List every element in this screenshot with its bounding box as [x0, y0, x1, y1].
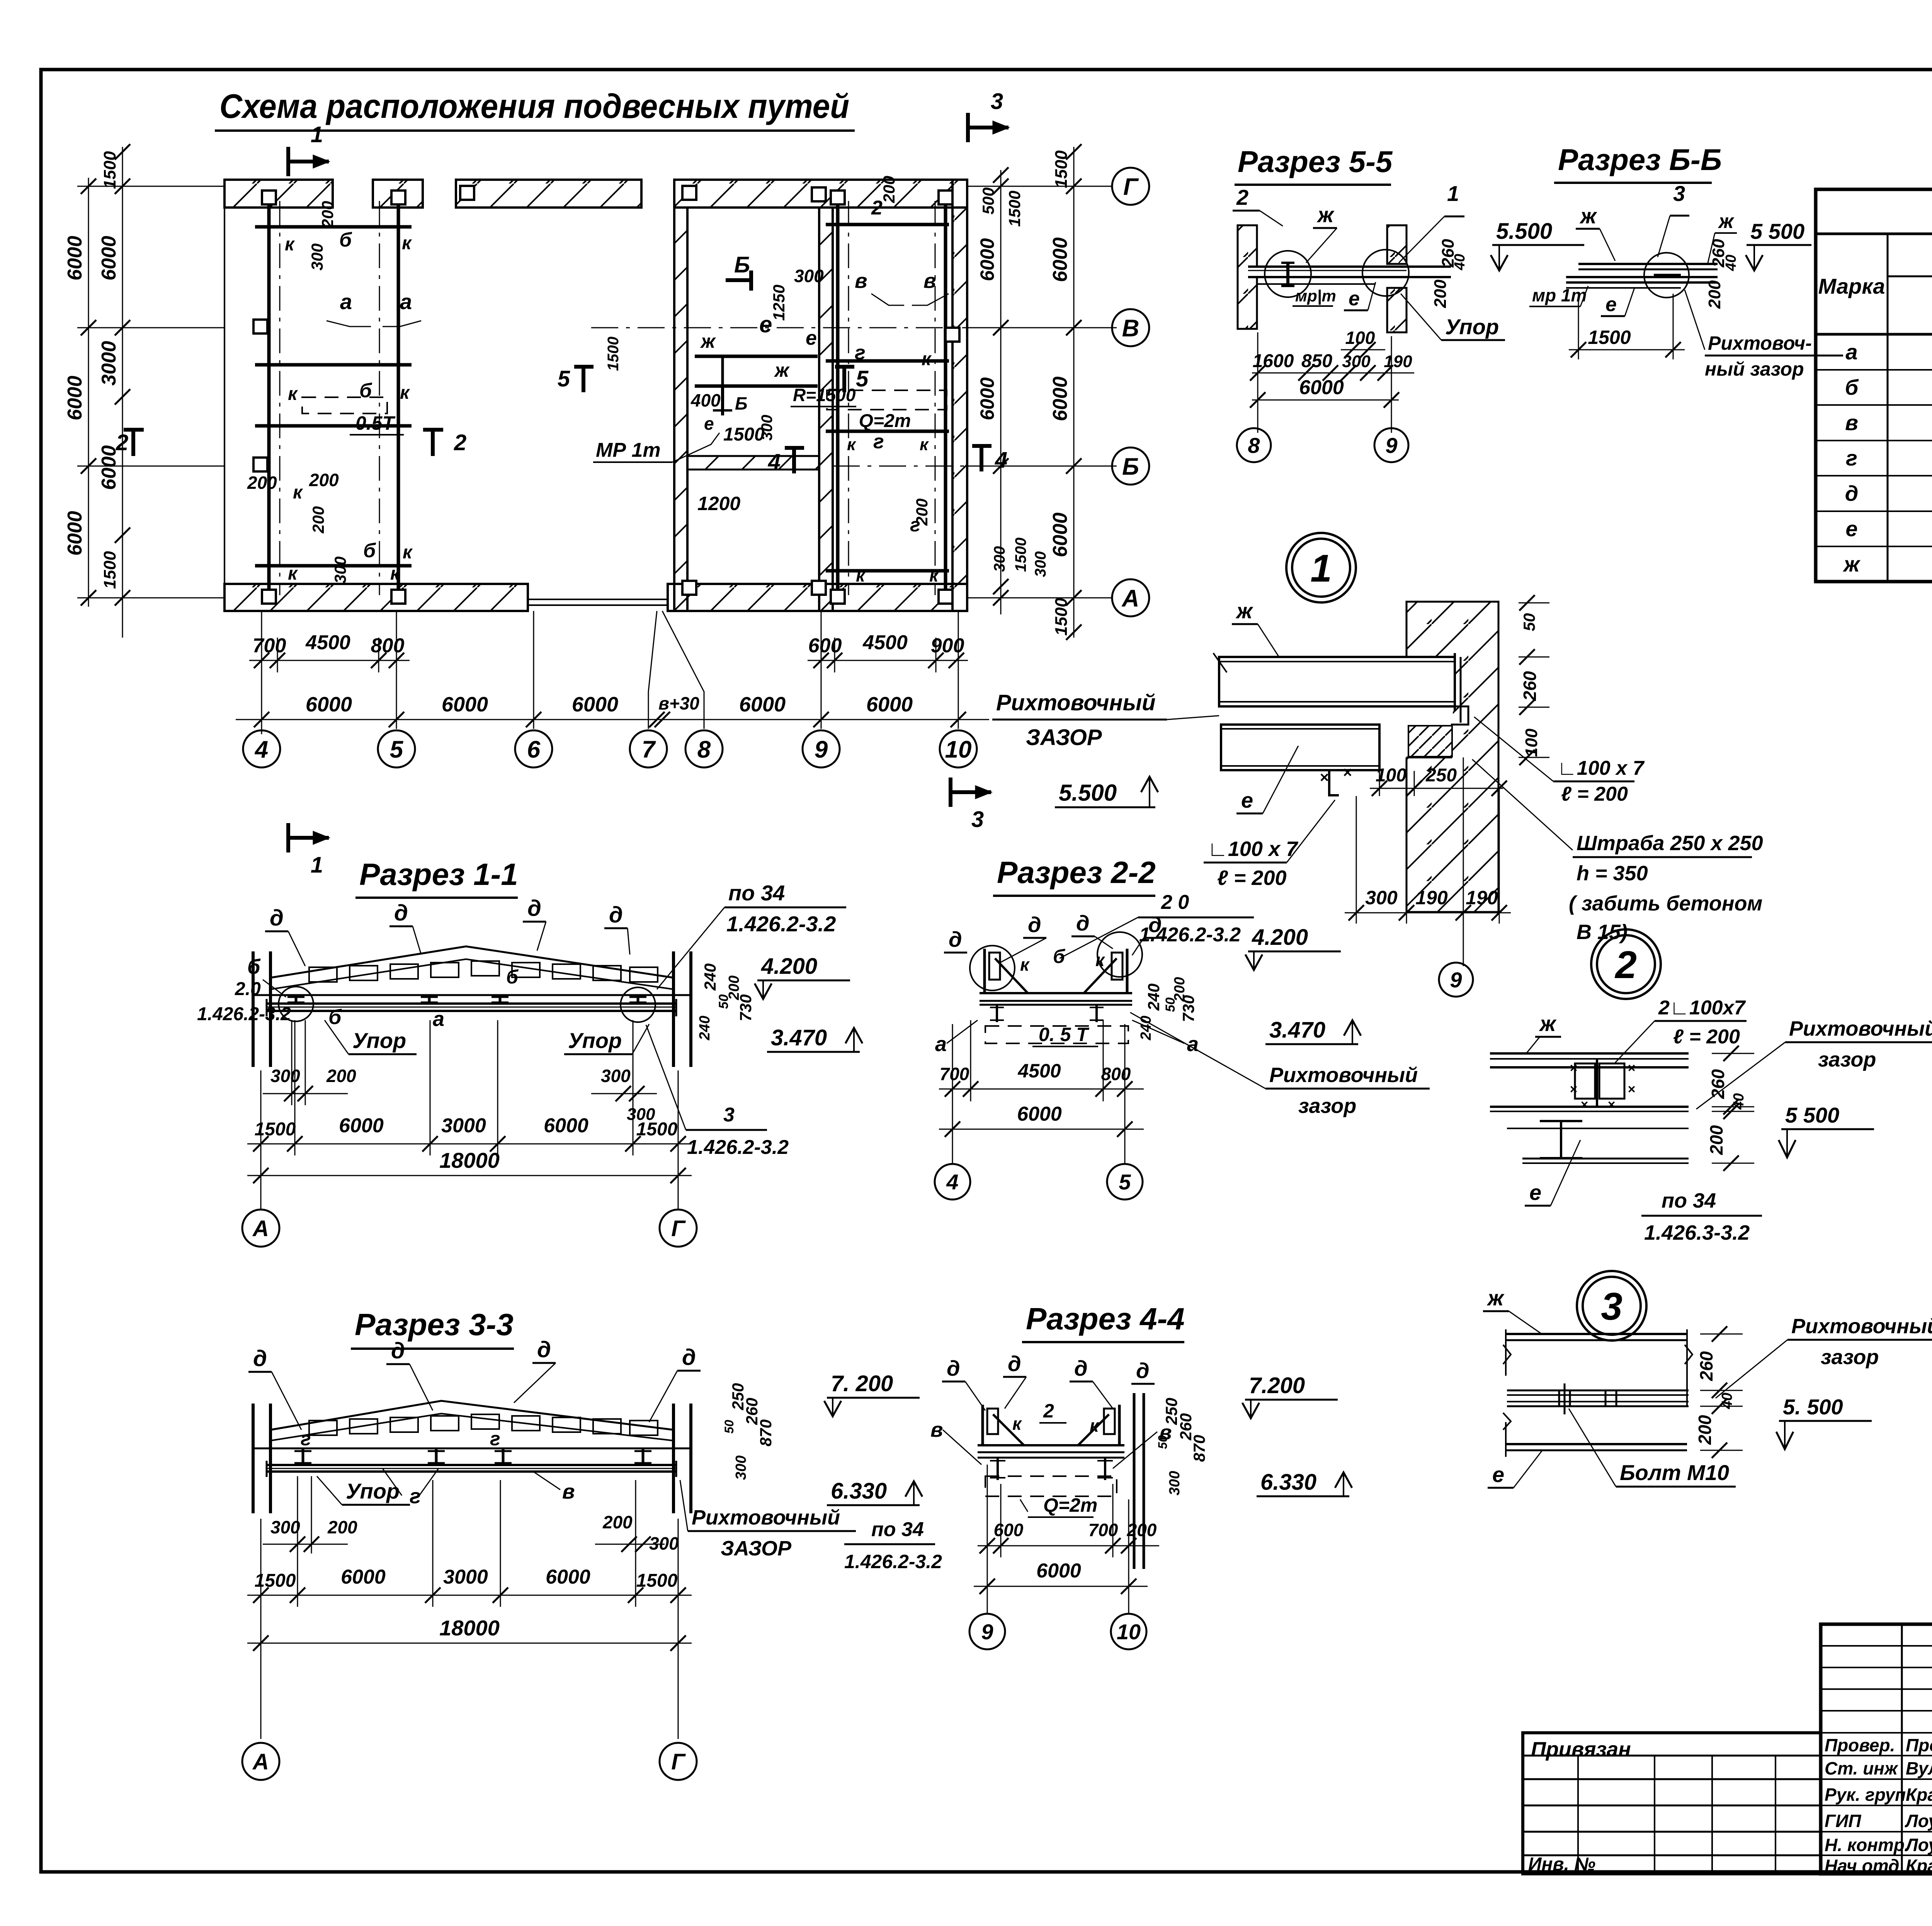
svg-text:1500: 1500: [1012, 538, 1029, 572]
grid bubble 8: [685, 730, 723, 767]
section 1-1 right column: [672, 951, 675, 1067]
svg-text:4: 4: [946, 1170, 958, 1194]
node3 bottom beam: [1506, 1443, 1687, 1445]
plan: left room cross beams b: [255, 225, 412, 229]
svg-text:6000: 6000: [1299, 376, 1344, 399]
svg-text:1500: 1500: [100, 151, 119, 189]
svg-text:д: д: [682, 1345, 696, 1370]
svg-text:3000: 3000: [443, 1566, 488, 1588]
svg-text:к: к: [856, 565, 866, 585]
plan: section flag B mid: [726, 278, 753, 282]
svg-text:1500: 1500: [1588, 327, 1631, 348]
grid bubble G (3-3): [660, 1743, 697, 1780]
svg-text:ж: ж: [1718, 210, 1735, 233]
svg-text:д: д: [1074, 1356, 1088, 1380]
svg-text:300: 300: [759, 415, 776, 441]
svg-text:Разрез 1-1: Разрез 1-1: [359, 857, 518, 892]
svg-text:Рихтовочный: Рихтовочный: [996, 690, 1156, 715]
section 4-4 hangers I: [997, 1458, 999, 1480]
grid bubble V: [1112, 309, 1149, 346]
svg-text:200: 200: [1706, 1125, 1726, 1155]
node2 lower rails: [1490, 1106, 1689, 1108]
svg-text:700: 700: [253, 635, 286, 657]
section 1-1 dim chain 1500-6000-3000-6000-1500: [247, 1143, 692, 1145]
title block outer: [1821, 1624, 1932, 1874]
svg-text:6000: 6000: [976, 238, 998, 281]
svg-text:г: г: [1846, 446, 1857, 470]
svg-text:е: е: [1605, 293, 1617, 316]
svg-text:в: в: [855, 269, 867, 293]
svg-text:к: к: [285, 234, 295, 255]
svg-text:4.200: 4.200: [761, 954, 817, 979]
svg-text:4500: 4500: [862, 631, 908, 654]
svg-text:6000: 6000: [866, 693, 913, 716]
svg-text:А: А: [1121, 585, 1139, 612]
svg-text:1500: 1500: [1052, 150, 1071, 188]
svg-text:ж: ж: [1235, 599, 1253, 623]
node2 top beam: [1490, 1052, 1689, 1055]
node circle 3: [1577, 1271, 1646, 1341]
svg-text:Q=2т: Q=2т: [1043, 1494, 1097, 1516]
svg-text:к: к: [400, 383, 410, 403]
svg-text:300: 300: [270, 1066, 300, 1086]
svg-text:к: к: [293, 482, 303, 503]
svg-text:Разрез 3-3: Разрез 3-3: [355, 1307, 514, 1342]
svg-text:260: 260: [1708, 1069, 1728, 1099]
svg-text:Рук. груп.: Рук. груп.: [1825, 1785, 1911, 1805]
svg-text:2: 2: [454, 430, 466, 455]
svg-text:Штраба 250 х 250: Штраба 250 х 250: [1577, 832, 1763, 855]
svg-text:9: 9: [815, 736, 828, 763]
svg-text:8: 8: [697, 736, 711, 763]
svg-text:6000: 6000: [306, 693, 352, 716]
svg-text:6000: 6000: [64, 236, 86, 281]
section 1-1 left column: [252, 951, 255, 1067]
section 5-5 rail beam: [1248, 267, 1451, 277]
svg-text:190: 190: [1415, 887, 1448, 909]
svg-text:к: к: [1020, 954, 1030, 975]
svg-text:Рихтовочный: Рихтовочный: [1791, 1315, 1932, 1338]
plan: right outer wall: [952, 180, 967, 611]
svg-text:4: 4: [254, 736, 268, 763]
svg-text:е: е: [1492, 1462, 1504, 1487]
svg-text:Рихтовочный: Рихтовочный: [1269, 1063, 1418, 1087]
svg-text:б: б: [363, 539, 376, 562]
svg-text:40: 40: [1452, 254, 1468, 271]
svg-text:к: к: [288, 384, 298, 404]
svg-text:50: 50: [1520, 613, 1538, 631]
plan: right room rail R4: [944, 193, 947, 601]
svg-text:Б: Б: [1122, 453, 1139, 480]
svg-text:В: В: [1122, 315, 1139, 342]
svg-text:1500: 1500: [1005, 191, 1024, 226]
svg-text:6000: 6000: [98, 236, 120, 281]
plan: right inner dim chain: [1000, 170, 1002, 614]
plan: 0.5T dashed hoist box: [302, 397, 387, 413]
svg-text:300: 300: [270, 1517, 300, 1537]
svg-text:д: д: [270, 905, 284, 931]
section 3-3 roof slab: [270, 1401, 673, 1430]
svg-text:ℓ = 200: ℓ = 200: [1673, 1026, 1740, 1048]
svg-text:40: 40: [1719, 1393, 1735, 1409]
svg-text:Ст. инж: Ст. инж: [1825, 1758, 1898, 1778]
svg-text:1200: 1200: [697, 493, 740, 514]
svg-text:а: а: [935, 1033, 947, 1056]
svg-text:1.426.2-3.2: 1.426.2-3.2: [726, 912, 836, 936]
signoff thin rows: [1821, 1645, 1932, 1647]
svg-text:×: ×: [1570, 1061, 1577, 1075]
svg-text:Разрез 5-5: Разрез 5-5: [1238, 145, 1393, 179]
privyazan grid: [1523, 1755, 1821, 1757]
svg-text:800: 800: [1101, 1064, 1131, 1084]
svg-text:в: в: [923, 269, 936, 293]
svg-text:240: 240: [1145, 983, 1163, 1011]
svg-text:260: 260: [1520, 671, 1540, 701]
svg-text:ж: ж: [1486, 1286, 1505, 1310]
svg-text:г: г: [301, 1428, 311, 1450]
svg-text:1.426.3-3.2: 1.426.3-3.2: [1644, 1221, 1750, 1244]
svg-text:д: д: [394, 900, 408, 926]
signoff table columns: [1820, 1624, 1822, 1874]
svg-text:д: д: [527, 896, 541, 921]
svg-text:1250: 1250: [770, 285, 788, 321]
plan: section flag 3 top: [966, 126, 1009, 129]
svg-text:40: 40: [1731, 1093, 1747, 1110]
svg-text:6000: 6000: [544, 1114, 588, 1137]
svg-text:200: 200: [1705, 280, 1724, 309]
svg-text:7.200: 7.200: [1249, 1373, 1305, 1398]
grid bubble G (1-1): [660, 1210, 697, 1247]
svg-text:5. 500: 5. 500: [1783, 1395, 1843, 1419]
svg-text:4: 4: [995, 447, 1007, 473]
svg-text:50: 50: [722, 1420, 736, 1434]
svg-text:2: 2: [1043, 1400, 1054, 1422]
section 5-5 left wall: [1238, 225, 1257, 329]
svg-text:Упор: Упор: [568, 1028, 622, 1053]
svg-text:3: 3: [1601, 1285, 1622, 1328]
svg-text:д: д: [1845, 481, 1859, 505]
svg-text:18000: 18000: [439, 1616, 500, 1640]
svg-text:200: 200: [1695, 1415, 1715, 1445]
plan: section flag 1 top: [286, 160, 329, 163]
svg-text:г: г: [410, 1485, 421, 1508]
svg-text:300: 300: [1365, 887, 1398, 909]
svg-text:300: 300: [794, 266, 824, 286]
svg-text:200: 200: [602, 1512, 633, 1532]
svg-text:5: 5: [856, 366, 869, 391]
svg-text:к: к: [920, 435, 929, 454]
section 1-1 roof holes: [309, 967, 337, 982]
svg-text:1500: 1500: [636, 1570, 678, 1591]
section 2-2 left end post: [983, 949, 986, 993]
plan: right grid extension lines: [967, 186, 1112, 187]
grid bubble 4 (2-2): [935, 1164, 970, 1199]
grid bubble 9 (4-4): [969, 1614, 1005, 1649]
grid bubble 10: [940, 730, 977, 767]
section 2-2 hangers: [996, 1005, 998, 1022]
svg-text:200: 200: [880, 176, 898, 203]
svg-text:5: 5: [558, 366, 570, 391]
plan: hoist MP1t mark: [721, 386, 724, 415]
svg-text:2: 2: [116, 430, 128, 455]
svg-text:6000: 6000: [64, 376, 86, 420]
svg-text:3: 3: [723, 1104, 735, 1126]
svg-text:в: в: [1845, 410, 1858, 435]
svg-text:3: 3: [1673, 181, 1685, 206]
svg-text:ж: ж: [1316, 202, 1335, 227]
grid bubble G: [1112, 168, 1149, 205]
svg-text:260: 260: [1696, 1351, 1716, 1381]
svg-text:е: е: [1241, 788, 1253, 812]
section 3-3 rail: [267, 1464, 676, 1466]
svg-text:е: е: [1845, 517, 1857, 541]
svg-text:ГИП: ГИП: [1825, 1811, 1861, 1831]
svg-text:300: 300: [331, 556, 349, 584]
svg-text:∟100 х 7: ∟100 х 7: [1557, 757, 1645, 779]
svg-text:3000: 3000: [441, 1114, 486, 1137]
node1 beam zh end plate: [1454, 653, 1456, 711]
svg-text:б: б: [339, 229, 352, 251]
svg-text:ный зазор: ный зазор: [1705, 358, 1804, 380]
svg-text:Г: Г: [1123, 174, 1139, 200]
svg-text:Разрез 4-4: Разрез 4-4: [1026, 1302, 1185, 1336]
section 1-1 dim 18000: [247, 1175, 692, 1176]
grid bubble 5: [378, 730, 415, 767]
svg-text:300: 300: [1167, 1471, 1183, 1495]
svg-text:Схема расположения подвесных: Схема расположения подвесных путей: [219, 87, 849, 125]
svg-text:а: а: [1845, 340, 1857, 364]
svg-text:е: е: [806, 327, 817, 349]
section 4-4 right end post: [1118, 1405, 1121, 1445]
svg-text:∟100 х 7: ∟100 х 7: [1207, 837, 1299, 861]
svg-text:е: е: [1349, 288, 1360, 310]
svg-text:200: 200: [326, 1066, 356, 1086]
node2 lower I beam: [1540, 1120, 1582, 1122]
plan: section flag 4 right: [980, 444, 983, 471]
svg-text:200: 200: [247, 473, 277, 493]
svg-text:Марка: Марка: [1818, 274, 1885, 298]
table grid: [1816, 233, 1932, 235]
svg-text:6000: 6000: [64, 511, 86, 556]
svg-text:б: б: [506, 966, 519, 988]
svg-text:д: д: [947, 1356, 960, 1380]
svg-text:д: д: [609, 902, 623, 927]
svg-text:к: к: [922, 349, 932, 369]
svg-text:1500: 1500: [100, 551, 119, 589]
svg-text:240: 240: [1138, 1016, 1154, 1040]
svg-text:к: к: [1012, 1414, 1022, 1434]
svg-text:ж: ж: [1539, 1011, 1557, 1036]
svg-text:300: 300: [1342, 352, 1371, 371]
plan: grid line B2 dash-dot: [833, 466, 1117, 467]
svg-text:г: г: [490, 1428, 500, 1450]
svg-text:250: 250: [1425, 765, 1457, 786]
svg-text:200: 200: [309, 506, 327, 534]
signoff name rows: [1821, 1755, 1932, 1756]
section 1-1 roof slab: [270, 946, 673, 978]
svg-text:мр|т: мр|т: [1295, 287, 1336, 305]
svg-text:6000: 6000: [1049, 376, 1071, 421]
svg-text:6000: 6000: [1036, 1560, 1081, 1582]
svg-text:ЗАЗОР: ЗАЗОР: [721, 1537, 792, 1560]
svg-text:×: ×: [1570, 1082, 1577, 1097]
svg-text:Нач отд: Нач отд: [1825, 1856, 1899, 1876]
plan: top wall band segments with hatch: [224, 180, 333, 208]
svg-text:200: 200: [913, 499, 931, 526]
svg-text:870: 870: [1190, 1435, 1208, 1462]
svg-text:5 500: 5 500: [1750, 219, 1804, 243]
grid bubble 9 (section 5-5): [1374, 428, 1408, 462]
section 1-1 callout circle right: [621, 987, 655, 1022]
svg-text:240: 240: [697, 1016, 713, 1040]
section 5-5 weld callout circle right: [1362, 250, 1409, 296]
svg-text:Разрез Б-Б: Разрез Б-Б: [1558, 143, 1722, 177]
svg-text:5.500: 5.500: [1059, 780, 1117, 806]
svg-text:7: 7: [642, 736, 656, 763]
svg-text:д: д: [537, 1337, 551, 1362]
svg-text:6: 6: [527, 736, 541, 763]
node1 shtraba hatch: [1408, 726, 1452, 757]
plan: right room rail centerlines: [848, 201, 849, 595]
svg-text:к: к: [847, 435, 857, 454]
plan: bottom dim chain row1 right 600-4500-900: [808, 660, 968, 661]
svg-text:300: 300: [733, 1455, 749, 1480]
svg-text:4.200: 4.200: [1252, 925, 1308, 950]
svg-text:ж: ж: [1842, 552, 1861, 576]
svg-text:6000: 6000: [341, 1566, 386, 1588]
section B-B upper rail: [1578, 263, 1718, 265]
svg-text:×: ×: [1628, 1082, 1635, 1097]
svg-text:5 500: 5 500: [1785, 1103, 1839, 1127]
plan: section flag 5 right: [842, 365, 846, 392]
svg-text:Провер.: Провер.: [1825, 1735, 1895, 1755]
plan: right room rail R3: [836, 193, 840, 601]
svg-text:зазор: зазор: [1298, 1094, 1356, 1118]
svg-text:50: 50: [1156, 1435, 1170, 1449]
plan: bottom dim chain row1 left 700-4500-800: [249, 660, 410, 661]
svg-text:3.470: 3.470: [1269, 1017, 1325, 1043]
section 2-2 beam: [980, 992, 1132, 994]
svg-text:6000: 6000: [442, 693, 488, 716]
node1 grid bubble 9: [1439, 963, 1473, 997]
node3 top beam: [1506, 1333, 1687, 1335]
section B-B lower rail: [1566, 276, 1718, 278]
section 3-3 left column: [252, 1404, 255, 1513]
svg-text:1.426.2-3.2: 1.426.2-3.2: [687, 1136, 789, 1159]
svg-text:200: 200: [318, 201, 337, 228]
svg-text:зазор: зазор: [1818, 1048, 1876, 1071]
svg-text:4500: 4500: [305, 631, 350, 654]
table Vedomost elementov outer: [1816, 189, 1932, 582]
section 1-1 callout circle left: [279, 987, 313, 1021]
plan: grid verticals to bubbles: [261, 611, 262, 729]
svg-text:1: 1: [311, 122, 323, 147]
svg-text:Б: Б: [734, 252, 750, 277]
node3 middle rail pair: [1507, 1390, 1689, 1392]
svg-text:400: 400: [690, 390, 721, 410]
svg-text:×: ×: [1320, 769, 1328, 786]
svg-text:г: г: [855, 342, 866, 364]
svg-text:730: 730: [736, 994, 755, 1021]
plan: left boundary line: [224, 208, 225, 584]
svg-text:1500: 1500: [605, 337, 622, 371]
svg-text:в: в: [930, 1418, 943, 1441]
plan: left extension lines: [77, 186, 224, 187]
section 3-3 dim chain: [247, 1595, 692, 1596]
svg-text:Упор: Упор: [1445, 315, 1499, 339]
svg-text:б: б: [328, 1006, 342, 1029]
node1 beam e: [1221, 725, 1379, 770]
svg-text:2.0: 2.0: [235, 979, 261, 999]
svg-text:0.5Т: 0.5Т: [355, 412, 396, 434]
svg-text:h = 350: h = 350: [1577, 862, 1648, 885]
svg-text:×: ×: [1628, 1061, 1635, 1075]
plan: column squares: [262, 191, 276, 204]
section 1-1 rail: [267, 1002, 676, 1005]
svg-text:730: 730: [1179, 995, 1197, 1022]
svg-text:1500: 1500: [636, 1119, 678, 1140]
svg-text:Вульф: Вульф: [1906, 1758, 1932, 1778]
svg-text:Г: Г: [671, 1216, 686, 1241]
svg-text:2 0: 2 0: [1161, 891, 1189, 914]
node1 beam zh: [1219, 657, 1455, 706]
plan: left inner dim chain: [122, 147, 123, 638]
svg-text:Разрез 2-2: Разрез 2-2: [997, 855, 1156, 890]
svg-text:1500: 1500: [1052, 598, 1071, 636]
svg-text:к: к: [288, 563, 298, 584]
node2 dim stack: [1712, 1053, 1754, 1054]
svg-text:2: 2: [1236, 185, 1248, 209]
svg-text:600: 600: [808, 635, 842, 657]
svg-text:к: к: [1095, 950, 1105, 970]
plan: grid line B dash-dot: [591, 327, 1117, 328]
plan: bottom wall band: [224, 584, 528, 611]
svg-text:600: 600: [994, 1520, 1024, 1540]
svg-text:Привязан: Привязан: [1531, 1738, 1631, 1761]
section 5-5 right wall lower: [1387, 288, 1406, 332]
svg-text:18000: 18000: [439, 1148, 500, 1172]
grid bubble 6: [515, 730, 552, 767]
plan: section flag 3 bottom: [949, 790, 991, 794]
svg-text:а: а: [400, 289, 412, 314]
svg-text:240: 240: [701, 963, 719, 991]
svg-text:700: 700: [940, 1064, 969, 1084]
svg-text:к: к: [1090, 1416, 1100, 1436]
svg-text:6000: 6000: [1017, 1103, 1062, 1125]
plan: second vertical wall: [819, 208, 833, 611]
grid bubble 8 (section 5-5): [1237, 428, 1271, 462]
plan: rail centerlines: [279, 201, 281, 595]
svg-text:6000: 6000: [1049, 512, 1071, 557]
svg-text:9: 9: [981, 1620, 993, 1644]
svg-text:850: 850: [1301, 351, 1332, 371]
section 3-3 roof holes: [309, 1421, 337, 1435]
svg-text:3000: 3000: [98, 341, 120, 386]
svg-text:Инв. №: Инв. №: [1528, 1854, 1595, 1875]
svg-text:ℓ = 200: ℓ = 200: [1217, 866, 1287, 890]
plan: bottom door threshold lines: [528, 599, 668, 600]
svg-text:200: 200: [327, 1517, 357, 1537]
svg-text:6000: 6000: [739, 693, 786, 716]
svg-text:по 34: по 34: [871, 1518, 924, 1541]
svg-text:6000: 6000: [572, 693, 618, 716]
svg-text:5: 5: [390, 736, 404, 763]
plan: left room rail R1: [267, 193, 271, 601]
section 2-2 callout circle right: [1097, 932, 1142, 977]
svg-text:6.330: 6.330: [831, 1479, 887, 1504]
svg-text:д: д: [253, 1346, 267, 1371]
svg-text:10: 10: [1117, 1620, 1141, 1644]
